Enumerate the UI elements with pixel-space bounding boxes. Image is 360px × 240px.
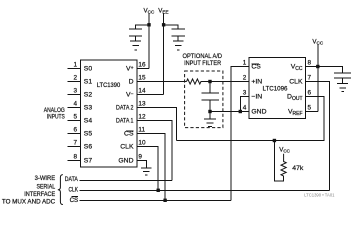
- wire CS bus: [80, 200, 232, 202]
- net VCC label (top): [144, 7, 155, 14]
- svg-text:4: 4: [243, 104, 247, 111]
- wire adc CS to CS bus: [231, 67, 249, 201]
- wire pin8 VCC rail: [306, 67, 343, 74]
- wire adc GND to filter ground: [210, 111, 249, 113]
- pin 5 VREF: [288, 104, 312, 116]
- pin 12 DATA 1: [116, 113, 146, 124]
- pin 1 CS (adc): [243, 59, 262, 70]
- wire filter node down: [209, 112, 211, 119]
- svg-text:CS: CS: [251, 64, 261, 71]
- svg-text:5: 5: [308, 104, 312, 111]
- svg-text:47k: 47k: [292, 165, 304, 172]
- mux U1 LTC1390 box: [81, 60, 138, 167]
- svg-text:CS: CS: [70, 197, 79, 204]
- capacitor C-vcc bypass: [129, 29, 142, 41]
- wire pin12 DATA1 to DATA bus: [137, 121, 172, 181]
- svg-text:TO MUX AND ADC: TO MUX AND ADC: [2, 198, 56, 205]
- svg-text:2: 2: [73, 74, 77, 81]
- net VEE label (top): [158, 7, 168, 14]
- svg-text:1: 1: [243, 59, 247, 66]
- svg-text:LTC1096: LTC1096: [263, 85, 288, 92]
- label 3-WIRE SERIAL INTERFACE TO MUX AND ADC: [2, 175, 56, 205]
- filter dashed box: [185, 71, 223, 128]
- pin 8 VCC (adc): [291, 59, 312, 71]
- svg-text:12: 12: [138, 113, 146, 120]
- svg-text:CLK: CLK: [69, 186, 79, 193]
- pin 10 CLK: [120, 139, 146, 150]
- svg-text:1: 1: [73, 61, 77, 68]
- adc U2 LTC1096 box: [249, 57, 306, 118]
- svg-text:10: 10: [138, 139, 146, 146]
- label CS (bus): [70, 196, 79, 204]
- svg-text:CLK: CLK: [289, 79, 303, 86]
- wire pin10 CLK to CLK bus: [137, 147, 158, 191]
- pin 5 S4: [68, 113, 93, 124]
- pin 11 CS: [124, 126, 145, 137]
- svg-text:SERIAL: SERIAL: [37, 184, 56, 191]
- wire VCC vertical to pin16: [148, 14, 150, 69]
- pin 1 S0: [68, 61, 93, 72]
- node CLK junction: [157, 189, 160, 192]
- ground (left bypass): [130, 41, 141, 50]
- ground (adc bypass): [337, 84, 348, 92]
- capacitor (filter shunt C): [202, 82, 220, 112]
- capacitor C-vee bypass: [172, 29, 185, 41]
- svg-text:VREF: VREF: [288, 109, 303, 117]
- wire -IN to gnd line: [240, 97, 249, 112]
- svg-text:14: 14: [138, 87, 146, 94]
- svg-text:S5: S5: [84, 131, 93, 138]
- pin 13 DATA 2: [116, 100, 146, 111]
- svg-text:D: D: [129, 79, 134, 86]
- brace: [58, 175, 63, 205]
- wire to left bypass cap: [136, 25, 149, 29]
- node pull-up junction: [273, 139, 276, 142]
- wire pin5 VREF to VCC: [306, 111, 318, 113]
- node junction VCC-bypass: [147, 23, 150, 26]
- svg-text:S3: S3: [84, 105, 93, 112]
- svg-text:DATA 1: DATA 1: [116, 118, 134, 125]
- pin 3 -IN: [243, 89, 263, 100]
- pin 8 S7: [68, 153, 93, 164]
- resistor (filter series R): [187, 79, 211, 84]
- svg-text:9: 9: [138, 153, 142, 160]
- pin 2 S1: [68, 74, 93, 85]
- svg-text:2: 2: [243, 74, 247, 81]
- svg-text:S4: S4: [84, 118, 93, 125]
- svg-text:7: 7: [308, 74, 312, 81]
- svg-text:S7: S7: [84, 158, 93, 165]
- wire pin9 to ground: [137, 161, 146, 169]
- svg-text:13: 13: [138, 100, 146, 107]
- svg-text:5: 5: [73, 113, 77, 120]
- svg-text:15: 15: [138, 74, 146, 81]
- svg-text:LTC1390 • TA01: LTC1390 • TA01: [304, 193, 335, 198]
- node -IN/GND junction: [239, 110, 242, 113]
- wire pin6 DOUT to DATA2: [176, 97, 324, 141]
- wire CLK bus: [80, 190, 330, 192]
- wire pin7 CLK to CLK bus: [306, 82, 330, 191]
- svg-text:DATA 2: DATA 2: [116, 105, 134, 112]
- pin 6 DOUT: [287, 89, 311, 101]
- wire pin16 to VCC: [137, 68, 149, 70]
- svg-text:+IN: +IN: [251, 79, 262, 86]
- svg-text:GND: GND: [118, 158, 133, 165]
- ground (mux): [141, 168, 152, 175]
- svg-text:3: 3: [73, 87, 77, 94]
- filter label OPTIONAL A/D INPUT FILTER: [183, 53, 223, 67]
- pin 14 V-: [126, 87, 146, 98]
- wire DATA bus: [80, 180, 172, 182]
- node junction VEE-bypass: [162, 23, 165, 26]
- svg-text:S1: S1: [84, 79, 93, 86]
- pin 16 V+: [126, 61, 146, 72]
- wire VEE vertical to pin14: [163, 14, 165, 95]
- node filter output: [208, 80, 211, 83]
- svg-text:INTERFACE: INTERFACE: [24, 191, 55, 198]
- capacitor (adc bypass): [334, 73, 351, 84]
- pin 9 GND: [118, 153, 142, 164]
- svg-text:CS: CS: [124, 131, 134, 138]
- wire filter to +IN: [210, 81, 249, 83]
- svg-text:4: 4: [73, 100, 77, 107]
- svg-text:3: 3: [243, 89, 247, 96]
- node CS junction: [163, 199, 166, 202]
- wire pin13 DATA2 to DOUT line: [137, 108, 176, 141]
- pin 15 D: [129, 74, 146, 85]
- svg-text:S0: S0: [84, 66, 93, 73]
- svg-text:DOUT: DOUT: [287, 94, 302, 102]
- pin 7 CLK (adc): [289, 74, 311, 85]
- resistor R1 47k: [281, 154, 286, 176]
- svg-text:6: 6: [73, 126, 77, 133]
- svg-text:INPUTS: INPUTS: [47, 114, 65, 121]
- pin 3 S2: [68, 87, 93, 98]
- svg-text:−IN: −IN: [251, 94, 262, 101]
- svg-text:16: 16: [138, 61, 146, 68]
- pin 7 S6: [68, 139, 93, 150]
- svg-text:8: 8: [73, 153, 77, 160]
- pin 6 S5: [68, 126, 93, 137]
- wire to right bypass cap: [164, 25, 179, 29]
- pin 4 S3: [68, 100, 93, 111]
- svg-text:6: 6: [308, 89, 312, 96]
- wire pin15 D to filter: [137, 81, 187, 83]
- svg-text:S2: S2: [84, 92, 93, 99]
- wire VCC label to pin8/VREF: [317, 45, 319, 112]
- svg-text:7: 7: [73, 139, 77, 146]
- svg-text:DATA: DATA: [65, 176, 79, 183]
- wire pin14 to VEE: [137, 94, 164, 96]
- svg-text:VCC: VCC: [291, 64, 303, 72]
- svg-text:11: 11: [138, 126, 145, 133]
- wire pin11 CS to CS bus: [137, 134, 165, 201]
- svg-text:3-WIRE: 3-WIRE: [35, 175, 56, 182]
- pin 2 +IN: [243, 74, 263, 85]
- svg-text:GND: GND: [251, 109, 266, 116]
- svg-text:S6: S6: [84, 144, 93, 151]
- node filter ground: [208, 110, 211, 113]
- ground (right bypass): [173, 41, 184, 50]
- wire pull-up loop: [274, 141, 283, 181]
- ground (filter): [204, 119, 216, 127]
- svg-text:8: 8: [308, 59, 312, 66]
- svg-text:LTC1390: LTC1390: [97, 82, 121, 89]
- pin 4 GND (adc): [243, 104, 267, 115]
- label ANALOG INPUTS: [44, 107, 65, 121]
- svg-text:CLK: CLK: [120, 144, 134, 151]
- svg-text:INPUT FILTER: INPUT FILTER: [184, 60, 221, 67]
- node VCC/pin8 junction: [316, 65, 319, 68]
